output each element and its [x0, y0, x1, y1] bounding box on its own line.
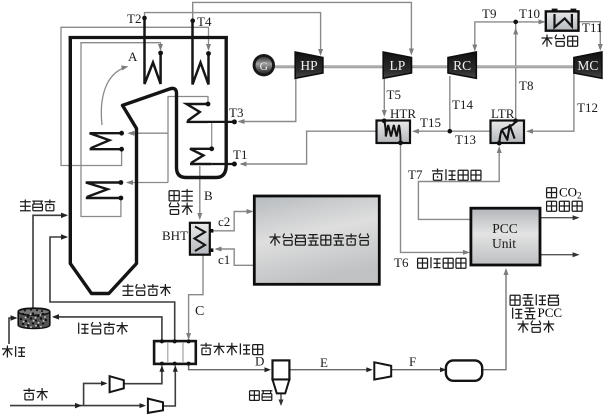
svg-text:T6: T6	[394, 255, 409, 270]
coil furnace lower	[86, 183, 121, 199]
wire T7 reboiler return to LTR	[418, 148, 499, 220]
wire B flue gas to BHT	[199, 166, 201, 219]
svg-text:T9: T9	[482, 6, 496, 21]
label to CO2 storage	[547, 188, 557, 198]
svg-text:T8: T8	[519, 78, 533, 93]
label huifen ash	[250, 391, 260, 401]
svg-text:RC: RC	[453, 58, 471, 73]
svg-text:T7: T7	[408, 167, 423, 182]
svg-text:MC: MC	[577, 58, 598, 73]
wire coal inlet	[9, 318, 16, 344]
svg-text:T13: T13	[455, 132, 476, 147]
turbine LP U2	[383, 52, 411, 78]
wire T9/T10 precooler feed	[475, 22, 544, 49]
coil backpass lower (T1)	[190, 149, 212, 164]
fan secondary air	[148, 399, 163, 413]
label yulengqi precooler	[542, 35, 553, 47]
turbine HP U1	[295, 52, 323, 78]
wire flue gas to PCC unit	[482, 270, 506, 370]
svg-text:PCC: PCC	[492, 221, 518, 236]
svg-text:PCC: PCC	[538, 305, 563, 320]
heat exchanger LTR	[491, 121, 525, 144]
wire T14 RC to junction	[449, 76, 451, 131]
wire air inlet main	[10, 405, 144, 407]
arrow A circulation	[101, 68, 125, 126]
wire HP exhaust to T3 reheat	[239, 77, 296, 122]
svg-text:F: F	[409, 354, 416, 369]
svg-text:BHT: BHT	[162, 228, 188, 243]
wire T5 LP exhaust to HTR	[383, 79, 385, 113]
svg-text:T3: T3	[229, 105, 243, 120]
wire T15 LTR to HTR	[414, 130, 491, 132]
node T15 junction	[448, 129, 453, 134]
svg-text:T10: T10	[519, 6, 540, 21]
wire outer envelope coil1 to right W panel	[61, 27, 209, 165]
wire T3 stub through wall	[208, 121, 234, 123]
wire feed to furnace coil1	[129, 132, 168, 134]
wire T1 stub through wall	[212, 163, 235, 165]
flue gas conditioning vessel	[446, 360, 482, 380]
svg-text:G: G	[260, 61, 268, 73]
svg-text:T12: T12	[577, 100, 598, 115]
node T1	[232, 162, 237, 167]
node T4	[190, 18, 195, 23]
generator G	[253, 54, 275, 76]
coil backpass upper (T3 reheater)	[187, 104, 209, 122]
wire turbine shaft	[274, 65, 588, 68]
wire fan1 to preheater	[124, 367, 162, 384]
wire PCC outlet bottom	[540, 254, 578, 256]
superheater W panel left (T2)	[145, 19, 161, 84]
wire E cyclone to fan	[289, 369, 370, 371]
wire backpass coil feed manifold	[168, 97, 208, 183]
compressor MC U4	[574, 52, 602, 78]
wire coal feed to furnace	[33, 215, 67, 308]
wire feed to furnace coil2	[128, 182, 169, 184]
svg-text:Unit: Unit	[492, 236, 516, 251]
fan primary air	[110, 376, 124, 392]
label gaowen yanqi hot flue gas	[169, 191, 179, 201]
svg-text:A: A	[128, 49, 138, 64]
wire T6 HTR to PCC reboiler	[401, 144, 469, 252]
svg-text:T14: T14	[452, 97, 473, 112]
heat exchanger BHT	[210, 229, 214, 233]
superheater W panel right (T4)	[193, 21, 209, 85]
wire F fan to vessel	[391, 369, 444, 371]
wire fan2 to preheater	[163, 367, 175, 407]
svg-text:LP: LP	[389, 58, 405, 73]
svg-text:D: D	[255, 354, 264, 369]
wire primary air to coal pile	[54, 317, 162, 341]
label cijikongqi secondary air	[123, 284, 134, 296]
air preheater	[154, 341, 196, 364]
wire T4 to LP inlet	[193, 2, 412, 52]
wire c2 BHT to cycle box	[212, 212, 253, 231]
svg-text:T2: T2	[127, 11, 141, 26]
wire ash outlet	[280, 393, 282, 403]
PCC unit box	[471, 208, 540, 265]
svg-text:B: B	[204, 188, 213, 203]
label kongqi air	[24, 388, 35, 400]
boiler furnace and backpass outline	[70, 36, 226, 294]
svg-text:T15: T15	[420, 115, 441, 130]
wire C BHT to air preheater	[189, 255, 203, 339]
svg-text:HTR: HTR	[390, 106, 416, 121]
heat exchanger HTR	[377, 121, 411, 144]
wire c1 cycle box to BHT	[216, 249, 254, 265]
label liuhuachuang fluidized bed	[20, 200, 31, 212]
node T10 junction	[513, 20, 518, 25]
wire T2 to HP inlet	[145, 13, 321, 53]
wire backpass coil2 link	[211, 122, 213, 149]
svg-text:LTR: LTR	[491, 106, 515, 121]
wire D preheater to cyclone	[189, 364, 269, 370]
node T3	[232, 119, 237, 124]
cyclone ash separator	[273, 360, 290, 379]
CO2 power cycle box	[254, 196, 379, 284]
svg-text:E: E	[320, 355, 328, 370]
compressor RC U3	[448, 52, 476, 78]
svg-text:T11: T11	[582, 20, 602, 35]
wire inner liner coil2 to left W panel	[81, 43, 161, 217]
wire secondary air to furnace	[50, 237, 175, 341]
label T6 wangzaifeiqi to reboiler	[418, 258, 428, 268]
svg-text:c2: c2	[218, 214, 230, 229]
label kongqiyureqi air preheater	[201, 343, 212, 355]
wire T8 from LTR to junction	[515, 22, 517, 120]
svg-text:T1: T1	[233, 147, 247, 162]
label T7 zizaifeiqi self reboiler	[432, 169, 443, 181]
node T2	[142, 16, 147, 21]
label flue gas to PCC	[510, 295, 520, 305]
wire PCC outlet top CO2	[540, 217, 578, 219]
wire T11 precooler to MC	[579, 22, 601, 49]
wire HTR hot out to T1	[241, 131, 377, 164]
fan flue gas booster	[374, 362, 391, 379]
wire air branch to fan1	[84, 383, 106, 405]
svg-text:C: C	[195, 304, 204, 319]
label meitan coal	[2, 346, 13, 358]
svg-text:T5: T5	[387, 87, 401, 102]
wire T12 MC to LTR	[528, 73, 574, 131]
label chujikongqi primary air	[79, 323, 89, 334]
svg-text:HP: HP	[300, 58, 317, 73]
svg-text:c1: c1	[218, 252, 230, 267]
precooler	[552, 9, 558, 13]
coil furnace upper (economizer)	[90, 133, 122, 149]
